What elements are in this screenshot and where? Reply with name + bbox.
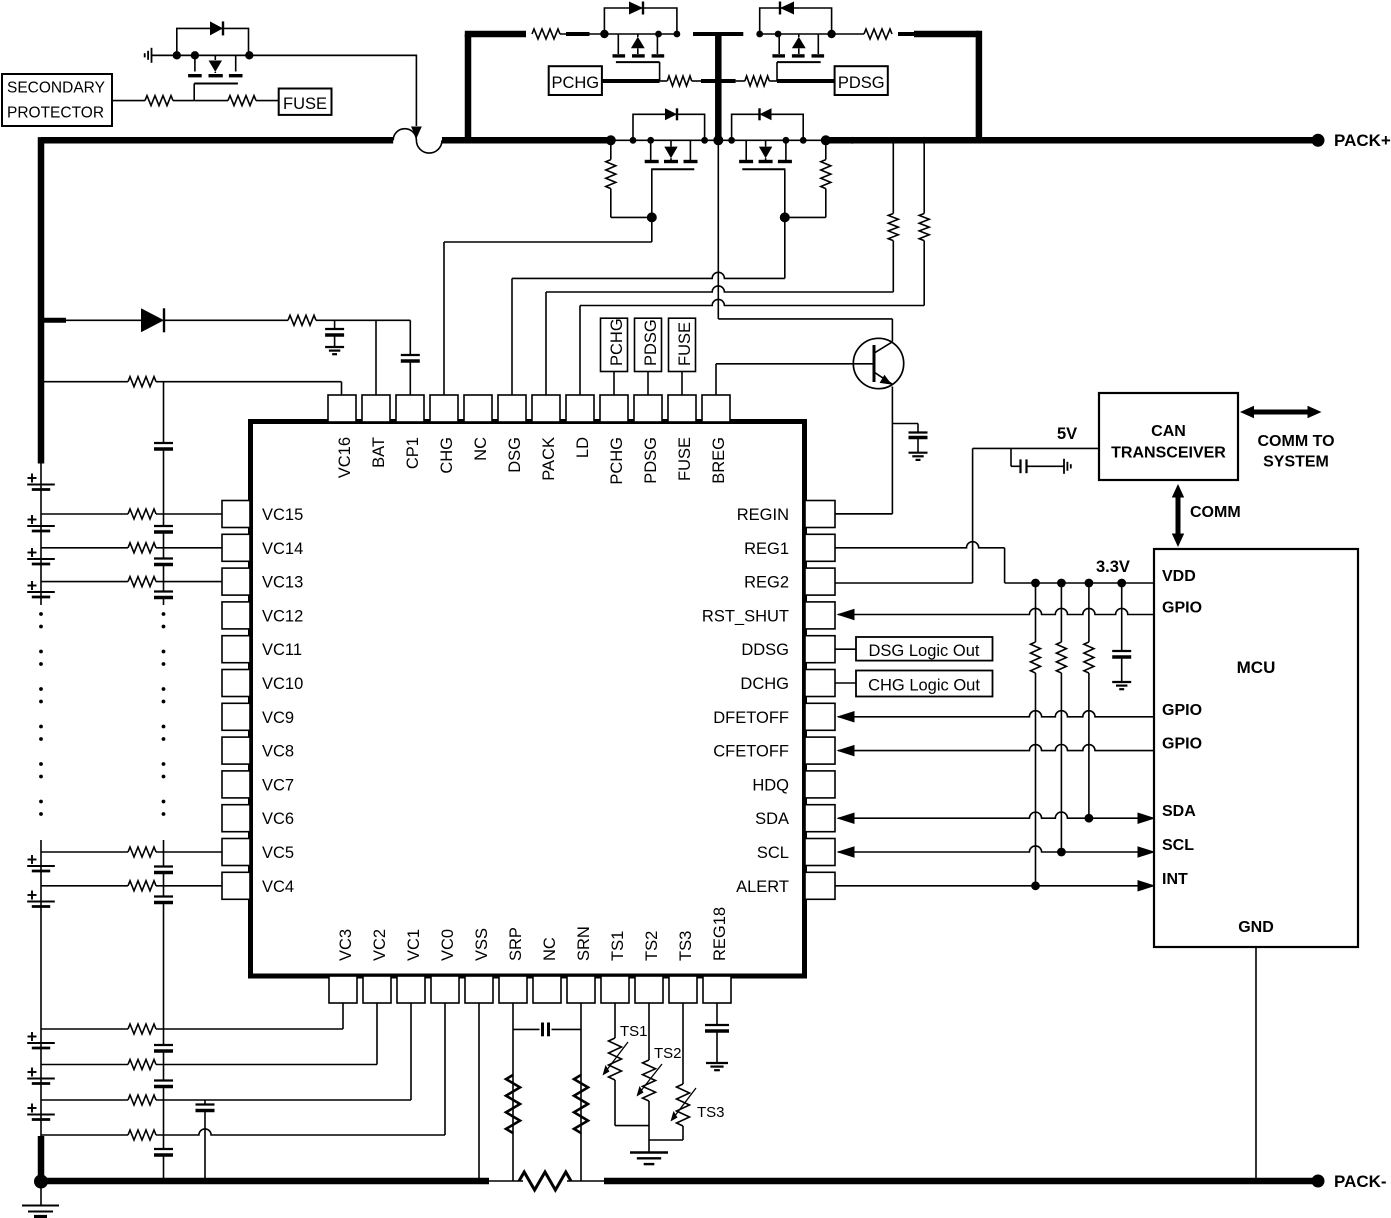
wire VC1 tap	[41, 1099, 128, 1101]
svg-text:FUSE: FUSE	[676, 322, 694, 366]
capacitor C7	[154, 590, 173, 592]
svg-text:DCHG: DCHG	[740, 675, 789, 693]
diode loop of DSG FET Q4	[732, 114, 804, 140]
wire REG1 to 3.3V rail (hop over 5V riser)	[835, 542, 1005, 548]
wire R1 to Q1	[560, 33, 604, 35]
wire REGIN cap branch	[892, 423, 918, 425]
PCHG FET Q1 left stub	[617, 34, 619, 54]
junction dot rail small	[849, 137, 856, 144]
wire VC15 tap	[41, 513, 128, 515]
ground at C1	[909, 452, 928, 454]
wire PDSG branch riser thick	[976, 31, 983, 141]
wire SRP-SRN cap stub right	[552, 1028, 582, 1030]
svg-text:MCU: MCU	[1237, 658, 1276, 677]
resistor R5 CHG gate pulldown	[610, 140, 612, 159]
resistor VC0	[128, 1130, 156, 1140]
capacitor C5	[154, 525, 173, 527]
svg-text:SRP: SRP	[507, 927, 525, 961]
svg-text:PACK: PACK	[540, 437, 558, 481]
svg-text:REG18: REG18	[711, 907, 729, 961]
wire SRN riser	[580, 1003, 582, 1181]
DSG FET Q4 gate bar	[742, 168, 785, 170]
pin box right REG1	[805, 534, 835, 561]
net label box FUSE above pin	[669, 318, 696, 371]
wire VDD cap stem	[1121, 583, 1123, 651]
wire battery bottom thick	[38, 1136, 45, 1181]
resistor VC2	[128, 1060, 156, 1070]
svg-text:SYSTEM: SYSTEM	[1263, 454, 1329, 471]
junction dot mid diode right	[701, 137, 708, 144]
fuse FET Q5 body-diode arrow	[214, 55, 216, 60]
transistor Q6 base wire from BREG	[716, 363, 874, 365]
wire R5 bottom to CHG gate node	[611, 216, 652, 218]
capacitor C9	[154, 895, 173, 897]
pin box right HDQ	[805, 771, 835, 798]
svg-text:VC5: VC5	[262, 844, 294, 862]
wire VC1 cap branch	[204, 1100, 206, 1105]
wire PACK+ left vertical rail	[38, 137, 45, 463]
wire REG2 to 5V riser	[835, 582, 973, 584]
secondary protector box	[2, 74, 112, 126]
svg-text:CHG: CHG	[438, 437, 456, 474]
svg-text:REG2: REG2	[744, 574, 789, 592]
svg-text:NC: NC	[541, 937, 559, 961]
svg-text:COMM TO: COMM TO	[1257, 433, 1334, 450]
svg-text:FUSE: FUSE	[676, 437, 694, 481]
svg-text:REG1: REG1	[744, 540, 789, 558]
capacitor C15 REG18	[705, 1024, 729, 1026]
wire TS1 to common	[614, 1080, 616, 1126]
svg-text:VC10: VC10	[262, 675, 303, 693]
DSG FET Q4 body-diode arrow down	[765, 140, 767, 146]
svg-text:SCL: SCL	[1162, 837, 1194, 854]
resistor VC14	[128, 543, 156, 553]
wire C17 to ground	[1121, 657, 1123, 682]
CHG FET Q3 gate bar	[651, 168, 694, 170]
arrowhead into MCU INT	[1138, 880, 1156, 892]
wire PACK- rail thick right	[604, 1178, 1318, 1185]
arrowhead into CFETOFF	[837, 745, 855, 757]
wire ALERT to MCU INT	[835, 885, 1152, 887]
resistor R7 PACK sense	[892, 140, 894, 213]
svg-text:ALERT: ALERT	[736, 878, 789, 896]
pin box left VC5	[222, 839, 250, 866]
wire MCU GND to PACK- rail	[1255, 947, 1257, 1181]
pin box top NC	[464, 395, 492, 422]
PDSG FET Q2 gate wire	[776, 62, 778, 81]
CHG FET Q3 body-diode arrow down	[670, 140, 672, 146]
arrowhead into MCU SDA	[1138, 812, 1156, 824]
svg-text:VC13: VC13	[262, 574, 303, 592]
pin box top DSG	[498, 395, 526, 422]
junction dot SCL pull-up	[1057, 848, 1066, 857]
resistor R10 VC16	[128, 377, 156, 387]
resistor R8 LD sense	[923, 140, 925, 213]
pin box left VC9	[222, 703, 250, 730]
wire VC16 line	[41, 381, 128, 383]
PDSG FET Q2 gate bar	[777, 61, 821, 63]
wire BAT line to diode	[60, 319, 141, 321]
pin box left VC6	[222, 805, 250, 832]
diode D1 on BAT line	[141, 308, 164, 332]
PDSG FET Q2 left stub	[778, 34, 780, 54]
wire C3 to ground	[334, 336, 336, 348]
pin box bottom VC1	[397, 976, 425, 1003]
wire TS3 to common	[682, 1126, 684, 1140]
pin box right CFETOFF	[805, 737, 835, 764]
wire top FET midpoint thick	[693, 32, 743, 36]
wire C1 to ground	[917, 438, 919, 453]
BREG pin riser	[715, 364, 717, 395]
wire PDSG label to pin	[647, 372, 649, 396]
wire PACK+ rail thick mid segment	[442, 137, 609, 144]
pin box left VC14	[222, 534, 250, 561]
pin box right REG2	[805, 568, 835, 595]
junction dot battery negative	[34, 1175, 48, 1189]
PCHG FET Q1 right stub	[656, 34, 658, 54]
pin box left VC4	[222, 872, 250, 899]
wire R2 to center node	[692, 80, 701, 82]
wire DSG gate to DSG pin (hop over central)	[512, 272, 785, 278]
svg-text:SDA: SDA	[755, 810, 789, 828]
svg-text:FUSE: FUSE	[283, 95, 327, 113]
svg-text:VC3: VC3	[337, 929, 355, 961]
svg-text:3.3V: 3.3V	[1096, 558, 1130, 576]
wire RST_SHUT to MCU GPIO	[838, 608, 1154, 614]
wire BAT pin riser	[375, 320, 377, 395]
wire secondary protector FET top rail	[152, 54, 417, 56]
junction dot LD sense at rail	[921, 137, 928, 144]
wire SRP-SRN cap stub left	[513, 1028, 540, 1030]
wire C3 stem	[334, 320, 336, 329]
pin box right DDSG	[805, 636, 835, 663]
pin box bottom VSS	[465, 976, 493, 1003]
wire battery negative to ground	[40, 1181, 42, 1205]
wire REG18 riser	[716, 1003, 718, 1025]
wire VC5 tap	[41, 851, 128, 853]
net label box PDSG above pin	[635, 318, 662, 371]
wire SDA to MCU	[838, 812, 1152, 818]
svg-text:CFETOFF: CFETOFF	[713, 743, 789, 761]
wire TS1 riser	[614, 1003, 616, 1038]
svg-text:VDD: VDD	[1162, 568, 1196, 585]
COMM vertical double arrow	[1176, 495, 1181, 536]
svg-text:HDQ: HDQ	[752, 776, 789, 794]
pin box right RST_SHUT	[805, 602, 835, 629]
wire VC5 to pin box	[156, 851, 222, 853]
DSG FET Q4 right stub	[785, 140, 787, 160]
wire DSG pin riser	[511, 278, 513, 395]
resistor VC1	[128, 1095, 156, 1105]
wire DCHG to logic box	[835, 682, 856, 684]
svg-text:SDA: SDA	[1162, 803, 1196, 820]
wire VC2 to pin riser	[156, 1064, 377, 1066]
ground at REG18 cap	[706, 1062, 728, 1064]
pin box right REGIN	[805, 501, 835, 528]
wire VC4 tap	[41, 885, 128, 887]
svg-text:VC8: VC8	[262, 743, 294, 761]
wire CHG gate to CHG pin riser	[444, 241, 652, 243]
junction dot Q4 right stub	[783, 137, 790, 144]
capacitor C4	[154, 442, 173, 444]
svg-text:INT: INT	[1162, 871, 1188, 888]
wire R3 to PDSG gate	[769, 80, 777, 82]
svg-text:TS1: TS1	[609, 931, 627, 961]
wire PCHG branch riser thick	[465, 34, 472, 140]
pin box right DFETOFF	[805, 703, 835, 730]
resistor VC5	[128, 847, 156, 857]
PCHG FET Q1 top line	[604, 33, 677, 35]
capacitor C16 5V	[1019, 459, 1021, 473]
wire VC0 tap	[41, 1134, 128, 1136]
ground at thermistor common	[630, 1151, 668, 1153]
svg-text:REGIN: REGIN	[737, 506, 789, 524]
wire PCHG label to pin	[613, 372, 615, 396]
svg-text:PDSG: PDSG	[838, 74, 885, 92]
resistor R21 to FUSE	[228, 96, 256, 106]
svg-text:GND: GND	[1238, 919, 1274, 936]
wire VC1 to pin riser	[156, 1099, 411, 1101]
svg-text:DSG Logic Out: DSG Logic Out	[869, 642, 980, 660]
wire center to R3	[736, 80, 745, 82]
resistor R13 SRN filter	[574, 1075, 588, 1133]
DSG FET Q4 gate wire	[784, 169, 786, 217]
svg-text:TS2: TS2	[654, 1045, 682, 1062]
CHG Logic Out box	[856, 671, 993, 697]
svg-text:GPIO: GPIO	[1162, 600, 1202, 617]
wire CHG gate node down	[651, 217, 653, 242]
wire C15 to ground	[716, 1031, 718, 1063]
svg-text:TS3: TS3	[677, 931, 695, 961]
wire emitter down to REGIN	[891, 387, 893, 514]
battery cell B14	[27, 558, 55, 560]
pin box bottom NC	[533, 976, 561, 1003]
diode loop of PDSG FET Q2	[760, 8, 832, 34]
svg-text:VC11: VC11	[262, 641, 302, 659]
svg-text:VSS: VSS	[473, 928, 491, 961]
svg-text:SCL: SCL	[757, 844, 789, 862]
diode loop of CHG FET Q3	[633, 114, 705, 140]
arrowhead into RST_SHUT	[837, 609, 855, 621]
svg-text:PCHG: PCHG	[608, 437, 626, 485]
battery cell B3	[27, 1042, 55, 1044]
wire R20 to gate node	[173, 100, 194, 102]
svg-text:NC: NC	[472, 437, 490, 461]
DSG FET Q4 left stub	[745, 140, 747, 160]
pin box bottom TS1	[601, 976, 629, 1003]
IC U1 body	[251, 422, 805, 977]
svg-text:TS1: TS1	[620, 1023, 648, 1040]
wire CHG pin riser	[443, 242, 445, 395]
svg-text:VC1: VC1	[405, 929, 423, 961]
pin box left VC7	[222, 771, 250, 798]
svg-text:VC4: VC4	[262, 878, 294, 896]
svg-text:GPIO: GPIO	[1162, 702, 1202, 719]
junction dot CHG source + pulldown	[606, 135, 616, 145]
wire DSG gate node down	[784, 217, 786, 278]
wire D1 to R9	[164, 319, 288, 321]
resistor R1 PCHG drain	[532, 29, 560, 39]
pin box top PCHG	[600, 395, 628, 422]
junction dot DSG diode left	[728, 137, 735, 144]
wire R1 stub thick	[566, 32, 590, 36]
wire PACK+ rail thin segment through FETs	[609, 139, 827, 141]
pin box right SCL	[805, 839, 835, 866]
wire VC3 tap	[41, 1028, 128, 1030]
wire 5V cap branch	[1010, 448, 1012, 466]
wire TS2 riser	[648, 1003, 650, 1060]
wire CP1 riser lower	[409, 361, 411, 395]
wire gate to PDSG box thick	[777, 79, 835, 83]
CHG FET Q3 right stub	[689, 140, 691, 160]
pin box bottom REG18	[703, 976, 731, 1003]
battery cell B13	[27, 591, 55, 593]
wire PACK sense to PACK pin (hop over central)	[546, 286, 893, 292]
wire VC2 tap	[41, 1064, 128, 1066]
svg-text:PDSG: PDSG	[642, 437, 660, 484]
PDSG FET Q2 channel bars	[772, 54, 785, 57]
svg-text:RST_SHUT: RST_SHUT	[702, 607, 789, 625]
junction dot SDA pull-up	[1085, 814, 1094, 823]
svg-text:VC6: VC6	[262, 810, 294, 828]
wire SCL to MCU	[838, 846, 1152, 852]
svg-text:VC0: VC0	[439, 929, 457, 961]
resistor R3 PDSG gate-source	[745, 76, 769, 86]
junction dot Q2 left stub	[775, 31, 782, 38]
ground at C3	[325, 346, 344, 348]
pin box right DCHG	[805, 670, 835, 697]
pin box bottom SRP	[499, 976, 527, 1003]
pin box top CHG	[430, 395, 458, 422]
svg-text:5V: 5V	[1057, 425, 1077, 443]
ground at battery negative	[22, 1205, 59, 1207]
resistor R14 pull-up	[1035, 583, 1037, 642]
capacitor C12	[154, 1148, 173, 1150]
junction dot Q1 right stub	[655, 31, 662, 38]
fuse FET Q5 channel bars	[188, 74, 202, 77]
wire TS2 to ground stem	[648, 1101, 650, 1153]
pin box left VC12	[222, 602, 250, 629]
junction dot DSG source + pulldown	[821, 135, 831, 145]
pin box bottom VC3	[329, 976, 357, 1003]
transistor Q6 emitter	[874, 372, 892, 384]
pin box top PDSG	[634, 395, 662, 422]
wire CP1 riser upper	[409, 320, 411, 355]
pin box top PACK	[532, 395, 560, 422]
wire SRP riser	[512, 1003, 514, 1181]
battery cell B15	[27, 525, 55, 527]
wire filter cap column upper	[163, 382, 165, 443]
MCU box	[1154, 549, 1358, 947]
svg-text:TS3: TS3	[697, 1104, 725, 1121]
thermistor TS3	[677, 1084, 690, 1126]
FUSE net label box	[279, 89, 332, 115]
arrowhead into SCL pin	[837, 846, 855, 858]
wire gate to R2	[660, 80, 668, 82]
svg-text:BREG: BREG	[710, 437, 728, 484]
svg-text:CAN: CAN	[1151, 423, 1186, 440]
wire center node thick segment	[701, 79, 736, 83]
wire VC3 to pin riser	[156, 1028, 343, 1030]
junction dot Q5 right post	[245, 51, 253, 59]
resistor R16 pull-up	[1088, 583, 1090, 642]
arrowhead into SDA pin	[837, 812, 855, 824]
wire VC13 tap	[41, 581, 128, 583]
pin box top BAT	[362, 395, 390, 422]
PCHG gate label box	[549, 66, 602, 95]
junction dot DSG gate node	[780, 212, 790, 222]
CHG FET Q3 left stub	[650, 140, 652, 160]
battery cell B5	[27, 865, 55, 867]
capacitor C11	[154, 1079, 173, 1081]
resistor VC3	[128, 1024, 156, 1034]
svg-text:DDSG: DDSG	[741, 641, 789, 659]
PCHG FET Q1 channel bars	[613, 54, 626, 57]
sideways ground at C16	[1063, 459, 1065, 474]
wire LD pin riser	[579, 306, 581, 396]
wire PCHG branch top thick	[465, 31, 526, 38]
svg-text:BAT: BAT	[370, 437, 388, 468]
junction dot central node	[713, 135, 723, 145]
net label box PCHG above pin	[601, 318, 628, 371]
svg-text:PACK-: PACK-	[1334, 1172, 1387, 1191]
junction dot Q3 diode left	[630, 137, 637, 144]
PACK+ terminal dot	[1312, 134, 1325, 147]
COMM TO SYSTEM double arrow	[1251, 410, 1309, 415]
wire PACK- rail thin at sense resistor	[489, 1180, 523, 1182]
wire PCHG box to gate thick	[602, 79, 660, 83]
wire Q2 to R4	[832, 33, 864, 35]
wire VSS riser	[478, 1003, 480, 1181]
svg-text:GPIO: GPIO	[1162, 736, 1202, 753]
resistor R12 SRP filter	[506, 1075, 520, 1133]
PCHG FET Q1 body-diode arrow up	[637, 34, 639, 37]
pin box left VC15	[222, 501, 250, 528]
wire secondary protector to gate	[112, 100, 145, 102]
junction pull-up rail dot 3	[1085, 579, 1094, 588]
svg-text:SRN: SRN	[575, 926, 593, 961]
pin box bottom VC2	[363, 976, 391, 1003]
CAN transceiver box	[1099, 393, 1238, 480]
wire 5V line to CAN transceiver	[973, 447, 1099, 449]
wire PDSG branch top thick	[914, 31, 979, 38]
junction dot Q1 diode right	[674, 31, 681, 38]
svg-text:PACK+: PACK+	[1334, 131, 1391, 150]
wire PACK- rail thick left	[38, 1178, 489, 1185]
transistor Q6 base bar	[873, 345, 876, 382]
wire R10 to VC16 pin	[156, 381, 342, 383]
capacitor C1 REGIN	[909, 431, 928, 433]
junction dot Q2 diode left	[756, 31, 763, 38]
thermistor TS1	[609, 1038, 622, 1080]
wire gate node to R21	[194, 100, 228, 102]
wire VC0 to pin riser (hop at cap line)	[156, 1129, 445, 1135]
wire battery column lower	[40, 840, 42, 1136]
svg-text:DFETOFF: DFETOFF	[713, 709, 789, 727]
wire VC14 to pin box	[156, 547, 222, 549]
resistor R9 BAT filter	[288, 315, 316, 325]
fuse FET Q5 right stub	[235, 55, 237, 71]
svg-text:LD: LD	[574, 437, 592, 458]
wire FUSE label to pin	[681, 372, 683, 396]
wire C16 to sideways ground	[1027, 465, 1065, 467]
wire BAT line thick stub	[41, 318, 66, 323]
resistor R11 current sense	[519, 1172, 571, 1190]
svg-text:TRANSCEIVER: TRANSCEIVER	[1111, 445, 1226, 462]
wire PACK pin riser	[545, 292, 547, 395]
pin box left VC13	[222, 568, 250, 595]
junction dot PACK sense at rail	[890, 137, 897, 144]
